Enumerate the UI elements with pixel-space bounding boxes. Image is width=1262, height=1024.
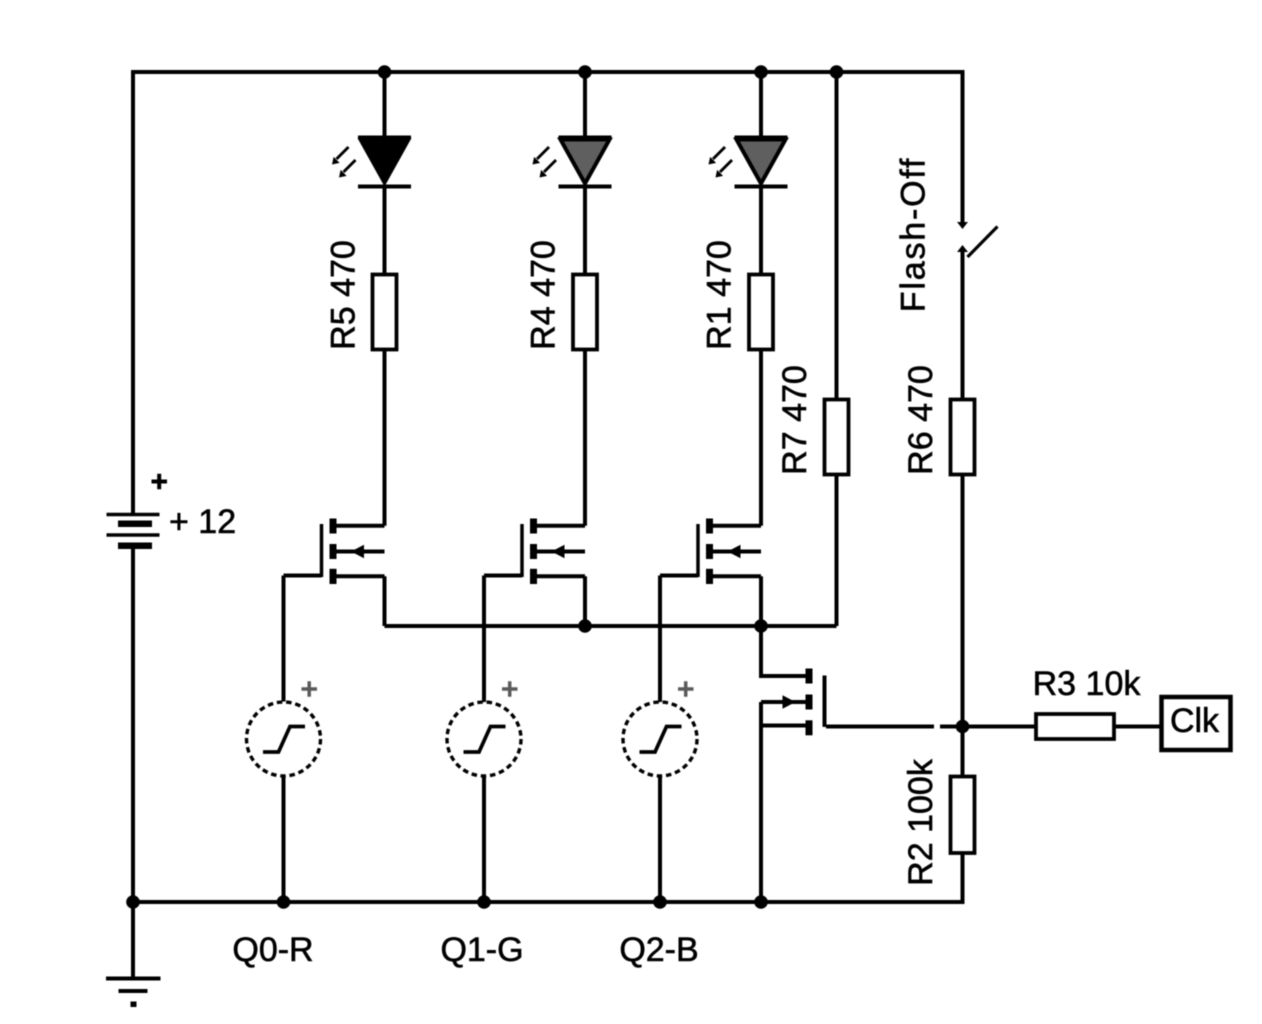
svg-text:R4 470: R4 470	[525, 240, 563, 350]
svg-text:Q2-B: Q2-B	[619, 931, 698, 969]
svg-text:R1 470: R1 470	[701, 240, 739, 350]
svg-text:Clk: Clk	[1170, 702, 1220, 740]
svg-text:+ 12: + 12	[169, 503, 236, 541]
svg-text:R6 470: R6 470	[902, 365, 940, 475]
svg-text:Q0-R: Q0-R	[232, 931, 313, 969]
svg-text:R7 470: R7 470	[776, 365, 814, 475]
svg-text:R2 100k: R2 100k	[902, 758, 940, 886]
svg-text:Q1-G: Q1-G	[440, 931, 523, 969]
svg-text:Flash-Off: Flash-Off	[895, 157, 933, 312]
svg-text:R3 10k: R3 10k	[1033, 665, 1142, 703]
svg-text:R5 470: R5 470	[325, 240, 363, 350]
